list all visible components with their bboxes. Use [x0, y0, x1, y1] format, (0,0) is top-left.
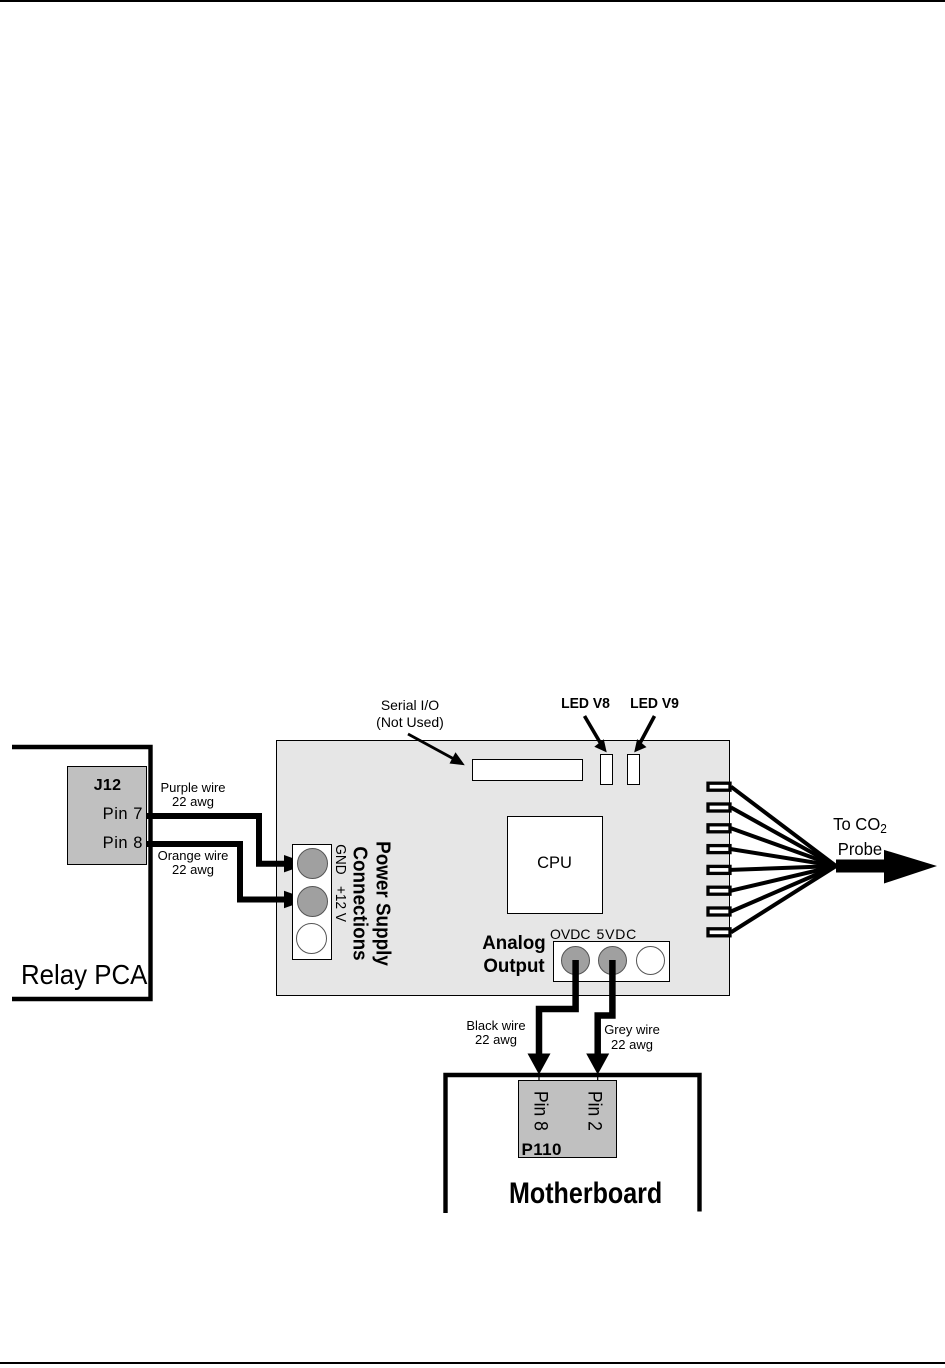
CPU board (main PCA)	[276, 740, 730, 996]
GND +12V pin labels (rotated)	[332, 844, 347, 916]
spare pin (white)	[296, 923, 327, 954]
black wire label	[446, 1019, 546, 1048]
LED V9 label	[617, 695, 692, 712]
P110 label	[522, 1140, 562, 1160]
J12 pin 8 label	[67, 834, 143, 853]
bottom page rule	[0, 1362, 945, 1364]
P110 pin 2 label (rotated)	[585, 1090, 603, 1124]
J12 label	[67, 777, 148, 795]
power supply connector block	[292, 844, 332, 960]
grey wire label	[582, 1023, 682, 1052]
Power Supply Connections label (rotated)	[348, 839, 393, 968]
analog output 5VDC pin (gray)	[598, 946, 627, 975]
5VDC label	[597, 926, 638, 942]
serial I/O label	[350, 697, 470, 731]
CPU	[507, 816, 603, 914]
analog output spare pin (white)	[636, 946, 665, 975]
To CO2 Probe label	[813, 814, 908, 859]
OVDC label	[550, 926, 590, 942]
connector J12	[67, 766, 147, 865]
GND pin (gray)	[297, 848, 328, 879]
LED V8	[600, 754, 613, 785]
+12V pin (gray)	[297, 886, 328, 917]
LED V8 label	[548, 695, 623, 712]
CPU label	[507, 854, 603, 873]
Analog Output label	[456, 932, 571, 977]
J12 pin 7 label	[67, 805, 143, 824]
connector P110	[518, 1080, 617, 1158]
Motherboard label	[509, 1177, 662, 1211]
Relay PCA label	[21, 959, 147, 991]
P110 pin 8 label (rotated)	[530, 1090, 548, 1124]
orange wire label	[143, 849, 243, 877]
purple wire label	[143, 781, 243, 809]
serial I/O connector	[472, 759, 583, 781]
analog output connector block	[553, 941, 670, 982]
top page rule	[0, 0, 945, 2]
LED V9	[627, 754, 640, 785]
analog output 0VDC pin (gray)	[561, 946, 590, 975]
